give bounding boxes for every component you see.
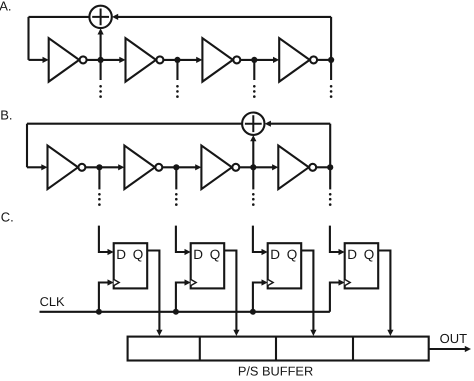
label P/S BUFFER — [238, 364, 313, 379]
wire B tap3 stub down — [252, 167, 255, 206]
label OUT — [440, 331, 468, 346]
svg-text:P/S BUFFER: P/S BUFFER — [238, 364, 313, 379]
wire A stage1 output — [87, 57, 125, 63]
node A tap2 — [174, 57, 180, 63]
wire tap4 to DFF4 D input — [330, 226, 345, 255]
wire B tap3 up into xor — [250, 135, 256, 167]
wire B top rail (xor output) — [27, 123, 243, 125]
node CLK junction 3 — [250, 309, 256, 315]
node B tap1 — [96, 164, 102, 170]
wire A stage4 output — [318, 59, 332, 61]
wire B stage3 output — [240, 164, 278, 170]
wire B tap4 stub down — [329, 167, 332, 206]
inverter B2 — [124, 146, 162, 190]
wire tap3 to DFF3 D input — [253, 226, 268, 255]
label DFF3 pin D — [270, 247, 280, 262]
wire A stage3 output — [241, 57, 279, 63]
node CLK junction 2 — [173, 309, 179, 315]
wire CLK to DFF1 clock pin — [99, 279, 114, 311]
label DFF1 pin D — [116, 247, 126, 262]
flip-flop U6 (DFF4) — [345, 243, 379, 288]
wire B tap1 stub down — [98, 167, 101, 206]
wire A top rail (xor output) — [29, 16, 91, 18]
label DFF2 pin D — [193, 247, 203, 262]
svg-text:B.: B. — [0, 107, 12, 122]
wire B stage1 output — [86, 164, 125, 170]
inverter A2 — [126, 38, 164, 82]
node B tap2 — [173, 164, 179, 170]
wire A tap2 stub down — [176, 60, 179, 98]
label A — [0, 0, 11, 13]
wire B tap2 stub down — [175, 167, 178, 206]
node B tap4 — [327, 164, 333, 170]
wire A tap1 stub down — [99, 60, 102, 98]
node A tap3 — [251, 57, 257, 63]
label DFF4 pin Q — [364, 247, 375, 262]
flip-flop U4 (DFF2) — [191, 243, 225, 288]
inverter A1 — [49, 38, 87, 82]
wire A feedback right vertical — [330, 17, 332, 60]
wire CLK line — [40, 311, 330, 313]
label DFF2 pin Q — [210, 247, 221, 262]
wire DFF3 Q output to buffer — [301, 251, 316, 336]
svg-text:Q: Q — [287, 247, 298, 262]
inverter B3 — [201, 146, 239, 190]
svg-text:Q: Q — [133, 247, 144, 262]
wire B feedback left vertical — [26, 124, 28, 168]
flip-flop U3 (DFF1) — [114, 243, 148, 288]
wire CLK to DFF3 clock pin — [253, 279, 268, 311]
svg-text:A.: A. — [0, 0, 11, 13]
wire B ring input — [27, 164, 48, 170]
label CLK — [40, 294, 65, 309]
wire A tap3 stub down — [253, 60, 256, 98]
flip-flop U5 (DFF3) — [268, 243, 302, 288]
xor U1 — [89, 6, 111, 28]
wire A tap4 stub down — [330, 60, 333, 98]
inverter A3 — [202, 38, 240, 82]
label DFF4 pin D — [347, 247, 357, 262]
wire B feedback right vertical — [329, 124, 331, 168]
svg-text:D: D — [116, 247, 126, 262]
label B — [0, 107, 12, 122]
wire A stage2 output — [164, 57, 203, 63]
wire CLK to DFF4 clock pin — [330, 279, 345, 311]
inverter B1 — [48, 146, 86, 190]
inverter A4 — [279, 38, 317, 82]
wire tap2 to DFF2 D input — [176, 226, 191, 255]
label DFF3 pin Q — [287, 247, 298, 262]
wire A tap1 up into xor — [98, 28, 104, 60]
inverter B4 — [278, 146, 316, 190]
node A tap4 — [328, 57, 334, 63]
label DFF1 pin Q — [133, 247, 144, 262]
buffer P/S — [128, 337, 429, 361]
wire OUT — [429, 346, 471, 352]
wire DFF1 Q output to buffer — [147, 251, 162, 336]
wire B stage4 output — [317, 166, 331, 168]
xor U2 — [242, 113, 264, 135]
wire DFF2 Q output to buffer — [224, 251, 239, 336]
svg-text:Q: Q — [364, 247, 375, 262]
wire A ring input — [29, 57, 49, 63]
svg-text:OUT: OUT — [440, 331, 468, 346]
wire B stage2 output — [163, 164, 202, 170]
wire CLK to DFF2 clock pin — [176, 279, 191, 311]
wire B top feedback into xor — [265, 121, 331, 127]
svg-text:D: D — [270, 247, 280, 262]
label C — [1, 209, 14, 224]
wire tap1 to DFF1 D input — [99, 226, 114, 255]
node B tap3 — [250, 164, 256, 170]
wire DFF4 Q output to buffer — [378, 251, 393, 336]
svg-text:D: D — [193, 247, 203, 262]
node A tap1 — [98, 57, 104, 63]
svg-text:Q: Q — [210, 247, 221, 262]
svg-text:CLK: CLK — [40, 294, 65, 309]
node CLK junction 1 — [96, 309, 102, 315]
svg-text:C.: C. — [1, 209, 14, 224]
wire A feedback left vertical — [27, 17, 29, 60]
svg-text:D: D — [347, 247, 357, 262]
wire A top feedback into xor — [112, 14, 331, 20]
